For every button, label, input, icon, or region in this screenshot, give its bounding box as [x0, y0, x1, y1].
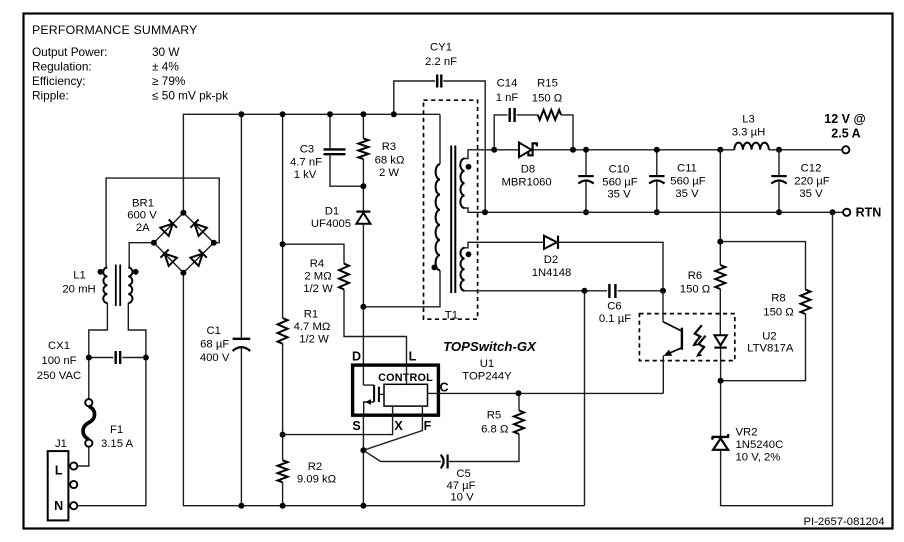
svg-text:68 µF: 68 µF [200, 339, 229, 351]
svg-text:4.7 nF: 4.7 nF [290, 157, 322, 169]
svg-text:L: L [55, 464, 63, 478]
inductor L3 [734, 143, 769, 150]
svg-text:CX1: CX1 [48, 340, 70, 352]
svg-text:≥ 79%: ≥ 79% [152, 74, 186, 88]
T1 bias winding [460, 248, 464, 291]
wire C5 to R5 [448, 434, 519, 462]
svg-text:U2: U2 [762, 331, 776, 343]
zener VR2 [712, 212, 832, 505]
svg-text:R2: R2 [308, 461, 322, 473]
inductor L1 right winding [128, 268, 132, 304]
resistor R8 [720, 242, 810, 381]
svg-text:C12: C12 [801, 163, 822, 175]
svg-text:C14: C14 [497, 78, 518, 90]
wire F1 to J1 L terminal [77, 447, 89, 466]
svg-text:10 V: 10 V [450, 492, 474, 504]
T1 secondary phasing dot [466, 164, 472, 170]
svg-text:Efficiency:: Efficiency: [32, 74, 86, 88]
CX1 junction dot right [143, 355, 149, 361]
svg-text:9.09 kΩ: 9.09 kΩ [297, 474, 336, 486]
wire BR1 minus to bottom bus [183, 273, 584, 506]
L1 phasing dot right [133, 269, 139, 275]
S node dot [360, 447, 366, 453]
J1 terminal circle middle [70, 481, 77, 488]
capacitor CX1 [89, 351, 146, 364]
T1 bias phasing dot [466, 251, 472, 257]
wire primary top drop [439, 114, 441, 164]
C11 rtn dot [654, 209, 660, 215]
svg-text:L3: L3 [742, 114, 755, 126]
capacitor C6 [585, 284, 664, 298]
U2 phototransistor [663, 291, 682, 394]
wire S node to C5 [363, 450, 441, 461]
svg-text:S: S [352, 419, 360, 433]
svg-text:J1: J1 [55, 438, 67, 450]
resistor R6 [715, 150, 725, 289]
svg-text:1N5240C: 1N5240C [736, 439, 784, 451]
svg-text:35 V: 35 V [607, 189, 631, 201]
RTN terminal circle [843, 209, 850, 216]
connector J1 body [48, 451, 69, 520]
wire AC loop left (BR1 to L1 left) [106, 178, 219, 267]
inductor L1 left winding [103, 268, 107, 304]
wire L1 right bottom to CX1 right rail [77, 303, 146, 506]
svg-text:12 V @: 12 V @ [824, 112, 865, 126]
svg-text:68 kΩ: 68 kΩ [375, 155, 405, 167]
RTN secondary dot [482, 209, 488, 215]
wire D pin [362, 307, 364, 385]
U2 LED [714, 289, 726, 381]
J1 terminal circle L [70, 462, 77, 469]
BR1 diode top-left [160, 224, 172, 236]
svg-text:0.1 µF: 0.1 µF [599, 313, 631, 325]
LED cathode junction dot [718, 378, 724, 384]
svg-text:560 µF: 560 µF [602, 176, 637, 188]
svg-text:F: F [424, 419, 432, 433]
svg-text:1 kV: 1 kV [294, 169, 317, 181]
svg-text:PERFORMANCE SUMMARY: PERFORMANCE SUMMARY [32, 23, 198, 37]
capacitor C12 [771, 150, 786, 213]
svg-text:250 VAC: 250 VAC [37, 370, 81, 382]
U1 internal MOSFET [363, 385, 384, 415]
RTN drop dot [830, 209, 836, 215]
svg-text:2 MΩ: 2 MΩ [304, 271, 331, 283]
U1 L pin internal lead [406, 365, 408, 384]
svg-text:N: N [54, 499, 63, 513]
svg-text:MBR1060: MBR1060 [501, 177, 551, 189]
L1 phasing dot left [98, 269, 104, 275]
R1-X junction dot [280, 432, 286, 438]
svg-text:Ripple:: Ripple: [32, 89, 69, 103]
R5 top dot [516, 390, 522, 396]
wire AC right (BR1 left node to L1 right) [129, 243, 154, 268]
C3 bus dot [327, 111, 333, 117]
L1 core lines [116, 265, 120, 307]
transformer T1 dashed box [424, 100, 478, 319]
L3 left dot [717, 147, 723, 153]
svg-text:2.5 A: 2.5 A [831, 127, 860, 141]
T1 primary winding [436, 164, 440, 270]
svg-text:L1: L1 [73, 270, 86, 282]
diode D1 [356, 212, 370, 307]
U1 control block box [384, 384, 428, 406]
BR1 diode top-right [195, 224, 207, 236]
CX1 junction dot left [86, 355, 92, 361]
svg-text:D2: D2 [544, 254, 558, 266]
svg-text:20 mH: 20 mH [62, 284, 95, 296]
svg-text:VR2: VR2 [736, 427, 758, 439]
svg-text:150 Ω: 150 Ω [532, 93, 562, 105]
svg-text:10 V, 2%: 10 V, 2% [736, 452, 781, 464]
capacitor CY1 [394, 75, 485, 213]
wire L1 left bottom to CX1 left rail [89, 303, 108, 399]
capacitor C11 [649, 150, 664, 213]
capacitor C1 [233, 114, 251, 505]
svg-text:150 Ω: 150 Ω [763, 307, 793, 319]
CY1 bus dot [391, 111, 397, 117]
svg-text:C6: C6 [607, 301, 621, 313]
wire 12V rail [494, 149, 519, 151]
R6 split dot [717, 239, 723, 245]
wire top DC bus [183, 114, 440, 212]
svg-text:≤ 50 mV pk-pk: ≤ 50 mV pk-pk [152, 89, 228, 103]
svg-text:600 V: 600 V [127, 210, 157, 222]
svg-text:± 4%: ± 4% [152, 60, 179, 74]
svg-text:35 V: 35 V [675, 188, 699, 200]
R2 bottom dot [280, 503, 286, 509]
svg-text:T1: T1 [445, 310, 458, 322]
svg-text:6.8 Ω: 6.8 Ω [481, 424, 508, 436]
svg-text:100 nF: 100 nF [41, 355, 76, 367]
svg-text:BR1: BR1 [132, 198, 154, 210]
svg-text:D: D [352, 350, 361, 364]
svg-text:L: L [409, 350, 417, 364]
svg-text:4.7 MΩ: 4.7 MΩ [294, 321, 331, 333]
C6 right dot [660, 288, 666, 294]
svg-text:C1: C1 [206, 325, 220, 337]
svg-text:C5: C5 [456, 468, 470, 480]
svg-text:PI-2657-081204: PI-2657-081204 [803, 516, 884, 528]
svg-text:F1: F1 [110, 424, 123, 436]
svg-text:Output Power:: Output Power: [32, 45, 107, 59]
wire secondary bottom to RTN [465, 208, 486, 212]
wire sense rail top [282, 114, 284, 318]
bridge BR1 diamond arms [154, 213, 214, 273]
C1 bottom dot [238, 503, 244, 509]
svg-text:3.3 µH: 3.3 µH [732, 127, 766, 139]
T1 primary phasing dot [431, 265, 437, 271]
svg-text:X: X [394, 419, 403, 433]
T1 core lines [451, 146, 455, 294]
L3 right dot [776, 147, 782, 153]
resistor R3 [358, 114, 368, 211]
svg-text:1N4148: 1N4148 [532, 267, 572, 279]
performance summary text block [32, 23, 228, 103]
wire RTN rail [485, 211, 843, 213]
capacitor C5 [441, 455, 448, 469]
wire bias bottom [465, 290, 585, 292]
svg-text:30 W: 30 W [152, 45, 180, 59]
C6 left dot [582, 288, 588, 294]
U2 light arrows [692, 325, 705, 357]
fuse F1 [83, 399, 95, 447]
svg-text:2A: 2A [136, 222, 150, 234]
C11 rail dot [654, 147, 660, 153]
svg-text:150 Ω: 150 Ω [680, 284, 710, 296]
wire S pin to bottom bus [362, 415, 364, 506]
svg-text:R3: R3 [382, 141, 396, 153]
svg-text:3.15 A: 3.15 A [101, 438, 134, 450]
BR1 node dot ac-right [211, 240, 217, 246]
svg-text:C: C [439, 381, 448, 395]
diode D8 MBR1060 [519, 143, 537, 158]
wire bias return [584, 291, 586, 506]
C1 top dot [238, 111, 244, 117]
svg-text:R15: R15 [537, 78, 558, 90]
U2 dashed box [639, 314, 734, 361]
svg-text:R4: R4 [310, 258, 324, 270]
C12 rtn dot [776, 209, 782, 215]
sense rail bus dot [280, 111, 286, 117]
svg-text:CONTROL: CONTROL [378, 372, 433, 384]
svg-text:C10: C10 [609, 163, 630, 175]
svg-text:Regulation:: Regulation: [32, 60, 92, 74]
svg-text:LTV817A: LTV817A [747, 343, 794, 355]
S node bottom dot [360, 503, 366, 509]
svg-text:35 V: 35 V [799, 188, 823, 200]
svg-text:400 V: 400 V [200, 352, 230, 364]
C10 rtn dot [583, 209, 589, 215]
U1 X pin lead [283, 406, 393, 435]
svg-text:47 µF: 47 µF [446, 480, 475, 492]
svg-text:R6: R6 [688, 270, 702, 282]
output terminal 12V [842, 146, 849, 153]
J1 terminal circle N [70, 502, 77, 509]
R3-C3 junction dot [360, 183, 366, 189]
BR1 node dot ac-left [151, 240, 157, 246]
svg-text:D8: D8 [521, 164, 535, 176]
resistor R4 [283, 244, 407, 365]
drain node dot [360, 304, 366, 310]
svg-text:560 µF: 560 µF [670, 176, 705, 188]
wire drain node to primary [363, 270, 440, 307]
svg-text:R1: R1 [304, 309, 318, 321]
BR1 node dot plus [180, 210, 186, 216]
svg-text:TOPSwitch-GX: TOPSwitch-GX [443, 339, 537, 354]
capacitor C3 [324, 114, 364, 186]
svg-text:UF4005: UF4005 [311, 218, 351, 230]
wire bias top to D2 [465, 242, 545, 248]
svg-text:D1: D1 [325, 206, 339, 218]
sense rail split dot [280, 241, 286, 247]
svg-text:2.2 nF: 2.2 nF [425, 56, 457, 68]
BR1 diode bottom-right [190, 254, 202, 266]
svg-text:2 W: 2 W [379, 167, 399, 179]
svg-text:TOP244Y: TOP244Y [462, 371, 512, 383]
T1 secondary winding [460, 159, 464, 209]
resistor R2 [278, 435, 288, 506]
svg-text:1/2 W: 1/2 W [303, 283, 333, 295]
capacitor C10 [578, 150, 593, 213]
svg-text:RTN: RTN [856, 206, 882, 220]
svg-text:R8: R8 [771, 293, 785, 305]
12V node dot anode [491, 147, 497, 153]
wire secondary top to 12V rail [465, 150, 495, 159]
C10 rail dot [583, 147, 589, 153]
12V node dot cathode [570, 147, 576, 153]
diode D2 1N4148 [544, 236, 663, 291]
U1 F pin lead [363, 406, 422, 450]
svg-text:U1: U1 [480, 358, 494, 370]
svg-text:R5: R5 [487, 410, 501, 422]
svg-text:1 nF: 1 nF [496, 92, 519, 104]
svg-text:C3: C3 [300, 144, 314, 156]
svg-text:C11: C11 [677, 163, 697, 175]
svg-text:1/2 W: 1/2 W [299, 334, 329, 346]
svg-text:220 µF: 220 µF [794, 176, 829, 188]
U1 C pin lead [428, 392, 664, 394]
op U1 outer box [353, 365, 439, 415]
resistor R5 [514, 393, 524, 434]
R3 bus dot [360, 111, 366, 117]
svg-text:CY1: CY1 [430, 42, 452, 54]
BR1 diode bottom-left [165, 254, 177, 266]
snubber branch C14 R15 [494, 108, 573, 150]
BR1 node dot minus [180, 270, 186, 276]
resistor R1 [278, 318, 288, 435]
